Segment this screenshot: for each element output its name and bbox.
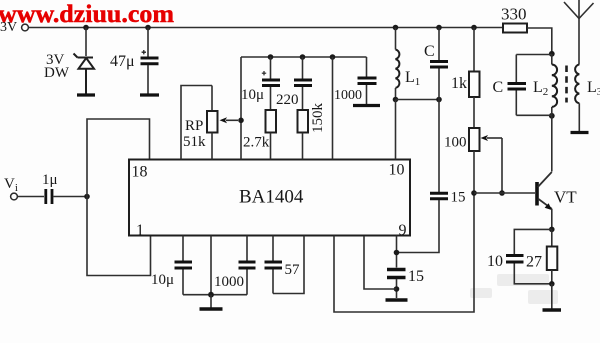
inductor L2 xyxy=(533,54,557,116)
svg-text:C: C xyxy=(424,43,435,60)
transistor VT xyxy=(537,172,577,209)
node tank top xyxy=(549,51,555,57)
wire 57 to pin link xyxy=(273,236,304,294)
wire 1k to 100 xyxy=(473,97,475,128)
ground (pin9) xyxy=(386,298,408,301)
capacitor 15 (mid) xyxy=(430,190,466,206)
node Vi junction xyxy=(84,194,90,200)
svg-text:1k: 1k xyxy=(451,75,467,92)
svg-text:VT: VT xyxy=(554,188,577,207)
svg-text:51k: 51k xyxy=(183,134,206,150)
svg-text:150k: 150k xyxy=(310,103,326,134)
resistor 150k xyxy=(298,87,327,160)
wire rail corner to IC (wiper line) xyxy=(240,57,242,160)
ground (zener) xyxy=(77,93,95,96)
wire L1 to pin10 xyxy=(395,100,397,160)
inductor L3 xyxy=(575,65,600,132)
wire 15 to ground xyxy=(396,279,398,298)
svg-text:3V: 3V xyxy=(0,20,17,35)
wire node to ground xyxy=(210,295,212,308)
svg-text:18: 18 xyxy=(132,164,148,181)
capacitor 57 xyxy=(265,236,301,294)
svg-text:RP: RP xyxy=(185,118,203,134)
wire 47u branch xyxy=(147,28,149,57)
wire 330 to tank xyxy=(527,28,552,54)
wire gnd stub pin2 xyxy=(210,236,212,295)
node tank bottom xyxy=(549,113,555,119)
node rail-47u xyxy=(145,25,151,31)
svg-text:330: 330 xyxy=(501,5,527,24)
node rail2-riser xyxy=(330,54,336,60)
node emitter network bottom xyxy=(549,281,555,287)
terminal 3V xyxy=(0,20,28,35)
ground (L3) xyxy=(571,131,589,134)
ground (47u) xyxy=(140,93,159,96)
wire base line xyxy=(474,192,535,194)
potentiometer 100 xyxy=(444,128,502,193)
svg-text:1000: 1000 xyxy=(214,274,244,290)
wire 1u to node xyxy=(54,196,88,198)
svg-text:C: C xyxy=(493,79,504,96)
wire 10u-1000 bottom link xyxy=(183,294,247,296)
svg-text:57: 57 xyxy=(285,262,301,278)
svg-text:100: 100 xyxy=(444,135,467,151)
wire C to 15 cap xyxy=(438,69,440,193)
inductor L1 xyxy=(396,28,421,100)
svg-text:10μ: 10μ xyxy=(151,272,174,288)
svg-text:47μ: 47μ xyxy=(110,53,135,70)
capacitor 1u xyxy=(42,172,58,204)
node pin9 xyxy=(394,250,400,256)
node rail2-10u xyxy=(268,54,274,60)
capacitor C (osc) xyxy=(424,28,448,68)
svg-text:1μ: 1μ xyxy=(42,172,58,188)
capacitor 1000 (top) xyxy=(334,57,377,104)
capacitor 10 xyxy=(487,253,552,284)
node 1000 gnd xyxy=(208,292,214,298)
antenna xyxy=(564,0,594,65)
wire emitter down xyxy=(551,209,553,230)
ground (emitter) xyxy=(543,308,562,311)
capacitor 47u xyxy=(110,50,159,94)
ground (bottom) xyxy=(200,307,223,310)
wire to pin1 xyxy=(87,197,151,276)
node L1 bottom xyxy=(393,97,399,103)
wire L1-C link xyxy=(396,99,440,101)
capacitor 15 (pin9) xyxy=(387,268,424,285)
svg-text:10μ: 10μ xyxy=(241,87,264,103)
wire pin9 stub xyxy=(396,236,398,268)
wire Vi to C 1u xyxy=(18,196,45,198)
resistor 27 xyxy=(526,229,557,283)
node base-left xyxy=(471,190,477,196)
zener diode DW 3V xyxy=(74,54,95,94)
svg-text:10: 10 xyxy=(487,253,503,270)
wire L2 to collector xyxy=(551,116,553,172)
wire to pin18 xyxy=(87,119,150,197)
svg-text:27: 27 xyxy=(526,254,542,271)
wire top supply rail xyxy=(29,27,504,29)
wire tank bottom xyxy=(516,114,552,116)
resistor 1k xyxy=(451,28,480,98)
svg-text:10: 10 xyxy=(389,162,405,179)
svg-text:220: 220 xyxy=(276,92,299,108)
node 15 ground link xyxy=(394,286,400,292)
capacitor 10u (top) xyxy=(241,57,280,103)
capacitor C (tank) xyxy=(493,55,527,116)
wire riser to IC pin xyxy=(332,57,334,160)
transformer core dashes xyxy=(565,66,568,103)
svg-text:1: 1 xyxy=(136,222,144,239)
svg-text:9: 9 xyxy=(399,222,407,239)
bottom pin wires: 10u xyxy=(151,236,192,295)
wire RP top jog xyxy=(181,86,212,160)
svg-text:2.7k: 2.7k xyxy=(243,135,270,151)
node base-wiper xyxy=(499,190,505,196)
potentiometer RP 51k xyxy=(183,86,238,160)
IC U1 BA1404 box xyxy=(129,160,410,236)
wire to ground xyxy=(551,284,553,309)
resistor 2.7k xyxy=(243,87,276,160)
input terminal Vi xyxy=(4,176,18,200)
svg-text:BA1404: BA1404 xyxy=(239,187,304,208)
node rail-L1 xyxy=(393,25,399,31)
node rail-C1 xyxy=(436,25,442,31)
wire 15 to pin9 jog xyxy=(397,200,440,253)
wire 100 to base rail & bottom xyxy=(334,151,474,312)
node rail-zener xyxy=(83,25,89,31)
ground (1000 top) xyxy=(353,104,380,107)
svg-text:15: 15 xyxy=(451,190,466,206)
capacitor 1000 (bottom) xyxy=(214,236,256,295)
node rail2-220 xyxy=(300,54,306,60)
wire emitter to 10 cap xyxy=(514,229,552,254)
node emitter xyxy=(549,227,555,233)
svg-text:DW: DW xyxy=(44,65,70,81)
wire zener branch xyxy=(85,28,87,57)
resistor 330 xyxy=(501,5,527,33)
node wiper xyxy=(238,118,244,124)
second rail xyxy=(241,56,367,58)
svg-text:15: 15 xyxy=(408,268,424,285)
wire tank top xyxy=(516,54,552,56)
wire link pin11 to gnd node xyxy=(364,236,397,289)
node C bottom xyxy=(436,97,442,103)
capacitor 220 xyxy=(276,57,312,108)
faint watermark bottom right xyxy=(470,274,558,304)
node rail-1k xyxy=(471,25,477,31)
svg-text:1000: 1000 xyxy=(334,88,362,103)
